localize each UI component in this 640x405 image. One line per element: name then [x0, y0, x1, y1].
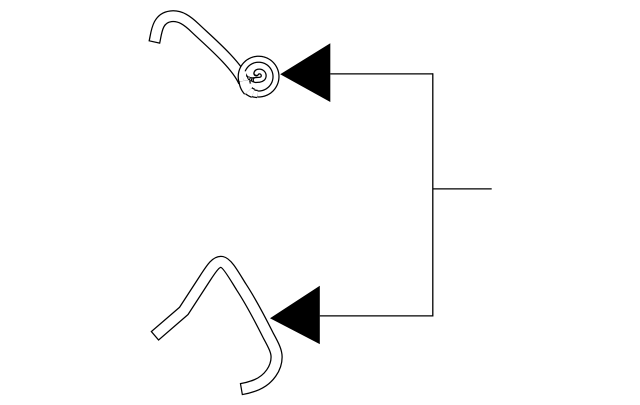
wire: top horizontal — [330, 73, 433, 75]
amplifier triangle (top input) — [280, 43, 330, 102]
bottom input squiggle wire — [155, 262, 277, 389]
wire: right vertical bus — [432, 73, 434, 316]
top input squiggle wire — [154, 16, 276, 94]
wire: output line — [433, 188, 492, 190]
amplifier triangle (bottom input) — [270, 286, 320, 344]
wire: bottom horizontal — [320, 315, 433, 317]
